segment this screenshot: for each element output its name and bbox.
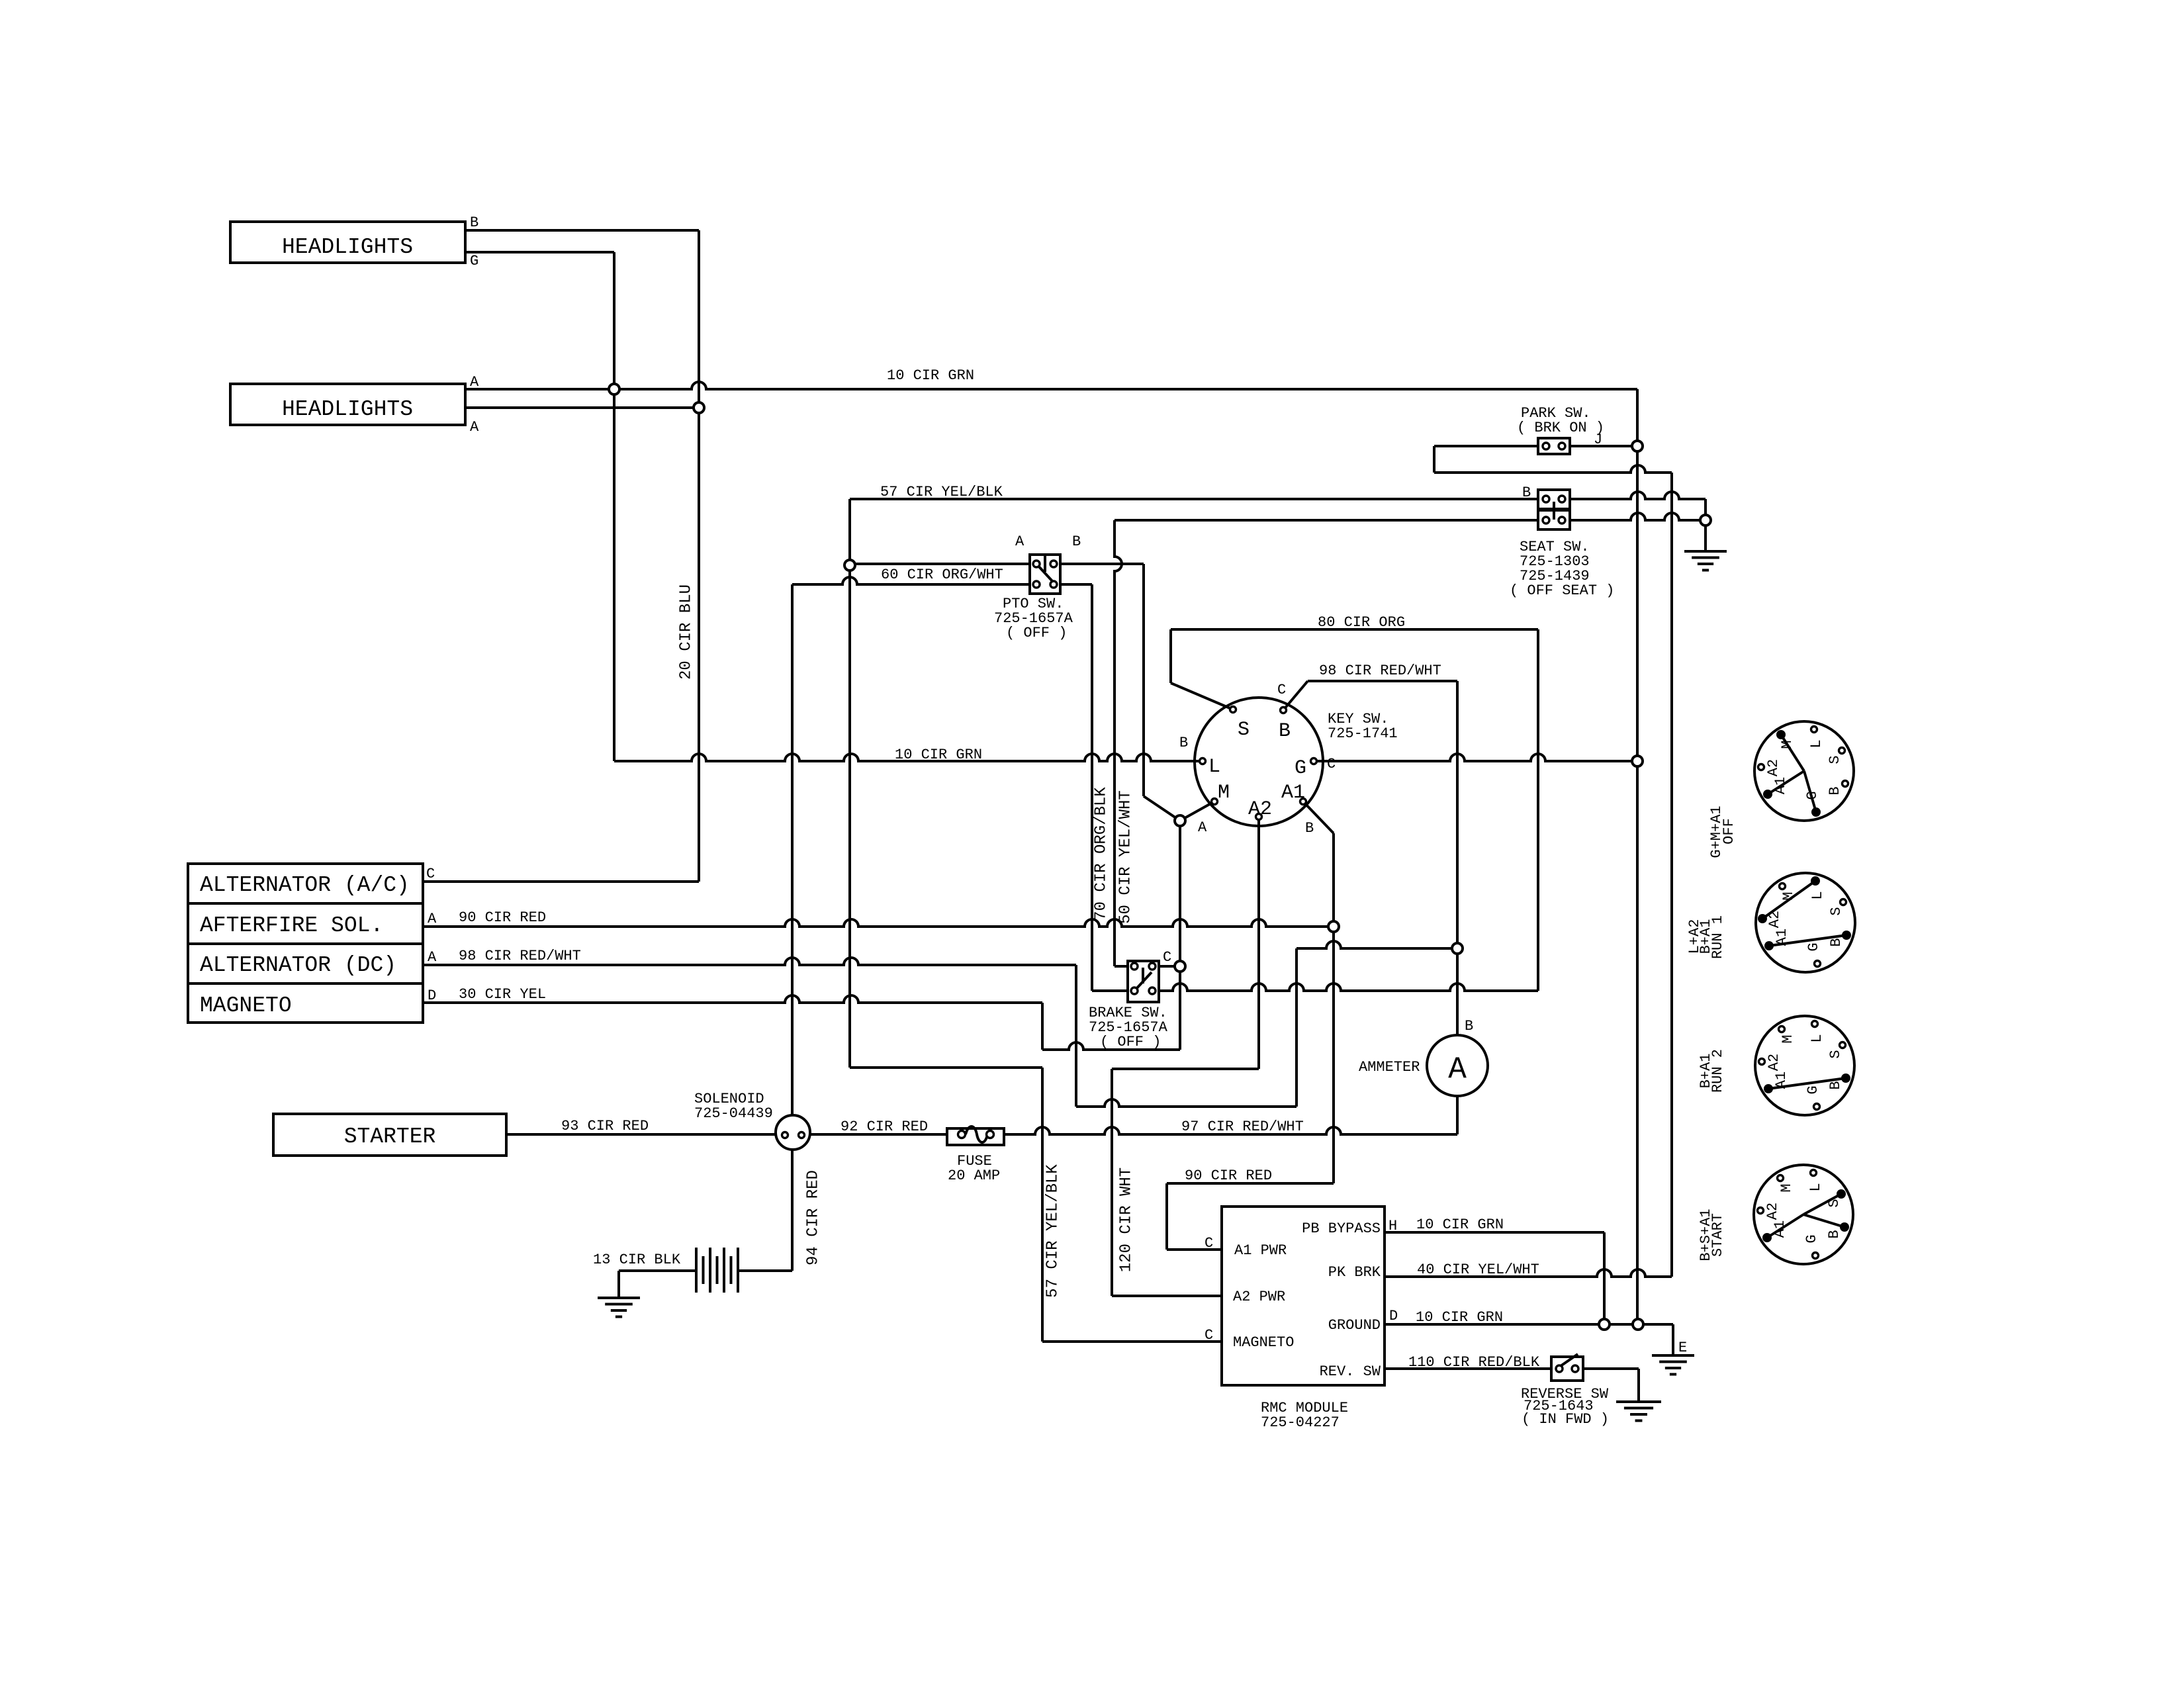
svg-text:( OFF ): ( OFF ) (1100, 1034, 1161, 1050)
svg-text:G: G (1803, 1234, 1820, 1243)
svg-text:S: S (1238, 719, 1250, 741)
svg-text:A2: A2 (1764, 1203, 1781, 1220)
svg-text:98 CIR RED/WHT: 98 CIR RED/WHT (459, 948, 581, 964)
svg-text:PK BRK: PK BRK (1328, 1264, 1381, 1281)
svg-text:98 CIR RED/WHT: 98 CIR RED/WHT (1319, 663, 1441, 679)
svg-text:A2: A2 (1766, 911, 1783, 928)
svg-text:AFTERFIRE SOL.: AFTERFIRE SOL. (200, 913, 383, 938)
svg-text:G: G (1804, 791, 1821, 800)
svg-text:G: G (1805, 942, 1822, 951)
svg-text:80 CIR ORG: 80 CIR ORG (1318, 614, 1405, 631)
svg-text:G: G (1295, 757, 1306, 780)
svg-text:L: L (1809, 1034, 1825, 1042)
svg-text:S: S (1827, 1050, 1844, 1058)
svg-text:AMMETER: AMMETER (1359, 1059, 1420, 1075)
svg-text:S: S (1826, 1199, 1843, 1207)
svg-text:B: B (1305, 820, 1314, 837)
svg-text:B: B (1827, 786, 1843, 795)
svg-text:S: S (1828, 907, 1844, 915)
svg-text:B: B (1522, 484, 1531, 501)
svg-text:30 CIR YEL: 30 CIR YEL (459, 986, 546, 1003)
svg-text:( OFF SEAT ): ( OFF SEAT ) (1510, 582, 1614, 599)
svg-text:MAGNETO: MAGNETO (200, 993, 292, 1018)
svg-text:B: B (1828, 938, 1844, 946)
svg-text:M: M (1780, 891, 1797, 900)
svg-text:90 CIR RED: 90 CIR RED (1185, 1167, 1272, 1184)
svg-text:A: A (1198, 819, 1207, 836)
svg-text:93 CIR RED: 93 CIR RED (561, 1118, 649, 1134)
svg-text:HEADLIGHTS: HEADLIGHTS (282, 397, 413, 422)
svg-text:B: B (1179, 735, 1188, 751)
svg-text:A1 PWR: A1 PWR (1234, 1242, 1287, 1259)
svg-text:C: C (1163, 949, 1171, 966)
svg-text:B: B (1072, 533, 1081, 550)
svg-text:110 CIR RED/BLK: 110 CIR RED/BLK (1408, 1354, 1540, 1371)
svg-text:L: L (1808, 739, 1825, 748)
svg-text:L: L (1208, 756, 1220, 778)
svg-text:57 CIR YEL/BLK: 57 CIR YEL/BLK (880, 484, 1003, 500)
svg-text:20 AMP: 20 AMP (948, 1167, 1000, 1184)
svg-text:M: M (1779, 740, 1796, 749)
svg-text:A: A (428, 911, 437, 927)
svg-text:94 CIR RED: 94 CIR RED (804, 1170, 822, 1265)
svg-text:120 CIR WHT: 120 CIR WHT (1117, 1167, 1135, 1272)
svg-text:G: G (1805, 1085, 1821, 1094)
svg-text:A: A (1448, 1052, 1467, 1087)
svg-text:A1: A1 (1774, 929, 1790, 946)
svg-text:A2: A2 (1248, 798, 1272, 821)
svg-text:40 CIR YEL/WHT: 40 CIR YEL/WHT (1417, 1261, 1539, 1278)
svg-text:A1: A1 (1773, 1072, 1790, 1089)
svg-text:725-1741: 725-1741 (1328, 725, 1398, 742)
svg-text:B+S+A1: B+S+A1 (1698, 1209, 1714, 1261)
svg-text:A1: A1 (1281, 782, 1305, 804)
svg-text:PB BYPASS: PB BYPASS (1302, 1220, 1381, 1237)
svg-text:L: L (1809, 891, 1826, 899)
svg-text:STARTER: STARTER (344, 1124, 436, 1149)
svg-text:ALTERNATOR (DC): ALTERNATOR (DC) (200, 953, 396, 978)
svg-text:G: G (470, 253, 478, 269)
svg-text:A: A (470, 374, 479, 390)
svg-text:A1: A1 (1772, 777, 1789, 794)
svg-text:725-04439: 725-04439 (694, 1105, 773, 1122)
svg-text:HEADLIGHTS: HEADLIGHTS (282, 235, 413, 259)
svg-text:M: M (1780, 1034, 1796, 1043)
svg-text:B: B (1279, 720, 1291, 743)
svg-text:REV. SW: REV. SW (1320, 1363, 1381, 1380)
svg-text:C: C (1205, 1235, 1213, 1252)
svg-text:B: B (470, 214, 478, 231)
svg-text:92 CIR RED: 92 CIR RED (841, 1119, 928, 1135)
svg-text:90 CIR RED: 90 CIR RED (459, 909, 546, 926)
svg-text:A: A (470, 419, 479, 435)
svg-text:725-04227: 725-04227 (1261, 1414, 1340, 1431)
svg-text:( IN FWD ): ( IN FWD ) (1522, 1411, 1609, 1428)
svg-text:L+A2: L+A2 (1686, 919, 1703, 954)
svg-text:MAGNETO: MAGNETO (1233, 1334, 1294, 1351)
svg-text:57 CIR YEL/BLK: 57 CIR YEL/BLK (1044, 1164, 1062, 1298)
svg-text:97 CIR RED/WHT: 97 CIR RED/WHT (1181, 1119, 1304, 1135)
svg-text:S: S (1827, 755, 1843, 764)
svg-text:A2: A2 (1765, 759, 1782, 776)
svg-text:C: C (1277, 682, 1286, 698)
svg-text:13 CIR BLK: 13 CIR BLK (593, 1252, 681, 1268)
svg-text:A: A (428, 949, 437, 966)
svg-text:10 CIR GRN: 10 CIR GRN (895, 747, 982, 763)
svg-text:B: B (1827, 1081, 1844, 1089)
svg-text:M: M (1778, 1183, 1795, 1192)
svg-text:J: J (1594, 432, 1602, 448)
svg-text:A: A (1015, 533, 1024, 550)
svg-text:A2: A2 (1766, 1054, 1782, 1071)
svg-text:C: C (1327, 756, 1336, 772)
svg-text:G+M+A1: G+M+A1 (1708, 805, 1725, 858)
svg-text:D: D (428, 987, 436, 1004)
svg-text:H: H (1388, 1218, 1397, 1234)
svg-text:B: B (1826, 1230, 1843, 1238)
svg-text:( OFF ): ( OFF ) (1006, 625, 1067, 641)
svg-text:C: C (1205, 1327, 1213, 1344)
svg-text:D: D (1389, 1308, 1398, 1324)
svg-text:60 CIR ORG/WHT: 60 CIR ORG/WHT (881, 567, 1003, 583)
svg-text:L: L (1807, 1183, 1824, 1191)
svg-text:GROUND: GROUND (1328, 1317, 1381, 1334)
svg-text:70 CIR ORG/BLK: 70 CIR ORG/BLK (1092, 787, 1110, 921)
svg-text:A2 PWR: A2 PWR (1233, 1289, 1285, 1305)
svg-text:10 CIR GRN: 10 CIR GRN (1416, 1216, 1504, 1233)
svg-text:B+A1: B+A1 (1698, 1054, 1714, 1089)
svg-text:ALTERNATOR (A/C): ALTERNATOR (A/C) (200, 873, 410, 897)
svg-text:10 CIR GRN: 10 CIR GRN (887, 367, 974, 384)
svg-text:B: B (1465, 1018, 1473, 1034)
svg-text:50 CIR YEL/WHT: 50 CIR YEL/WHT (1116, 790, 1134, 924)
svg-text:A1: A1 (1772, 1220, 1788, 1238)
svg-text:20 CIR BLU: 20 CIR BLU (677, 584, 695, 680)
svg-text:M: M (1218, 782, 1230, 804)
svg-text:( BRK ON ): ( BRK ON ) (1517, 420, 1604, 436)
svg-text:10 CIR GRN: 10 CIR GRN (1416, 1309, 1503, 1326)
svg-text:C: C (426, 866, 435, 882)
svg-text:E: E (1678, 1340, 1687, 1356)
